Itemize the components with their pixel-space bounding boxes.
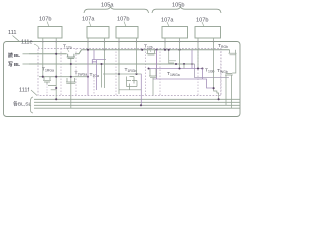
write bit line WBL [29, 63, 195, 65]
transistor T RGb [229, 50, 237, 55]
svg-text:T1WGa: T1WGa [167, 71, 180, 77]
series transistor T12b on RBL [147, 50, 156, 55]
tick 107b (cell 0) [47, 22, 49, 27]
tick T12a [67, 49, 69, 53]
long gate line 105b [153, 78, 202, 80]
purple riser 105b [201, 69, 203, 80]
junction dot node-column cell0 [70, 76, 72, 78]
bus line 2 [34, 101, 240, 103]
transistor T RGa cell0 [43, 77, 51, 84]
bus line 4 [34, 107, 240, 109]
wire: box4 right leg to node [179, 38, 181, 69]
svg-text:T1RGa: T1RGa [42, 67, 54, 73]
svg-text:107a: 107a [82, 17, 95, 23]
dashed cell-region outline 111e/111f [38, 49, 221, 96]
read bit line lead [23, 53, 30, 55]
junction dot on RBL [55, 53, 57, 55]
svg-text:111: 111 [8, 30, 17, 36]
step route to bus1 [214, 88, 219, 99]
read bit line RBL [29, 50, 230, 54]
svg-text:T12b: T12b [144, 44, 153, 50]
junction dot WBL cell0 [70, 63, 72, 65]
write transistor cell0 under WBL [66, 78, 76, 84]
WBL step-down to T WGb [195, 64, 229, 78]
outer array box 111 [4, 42, 241, 117]
svg-text:107a: 107a [161, 18, 174, 24]
word line vertical 105a [156, 50, 158, 79]
pointer 111 [13, 36, 20, 42]
svg-text:107b: 107b [117, 17, 129, 23]
internal dashed column boundaries [93, 74, 95, 96]
junction dot node 105a [118, 73, 120, 75]
wire: box3 right leg to node [136, 38, 138, 74]
write bit line lead [23, 63, 30, 65]
purple vertical 105b [191, 50, 193, 69]
node line 105a [103, 73, 142, 75]
short wire WBL to node [101, 64, 103, 88]
memory element box 107b (cell 0) [38, 27, 62, 39]
gate column wire cell0 [70, 58, 72, 108]
svg-text:各BL,SL: 各BL,SL [13, 101, 31, 108]
wire: box2 left leg [87, 38, 89, 50]
memory element box 107b (pair 105a) [116, 27, 138, 39]
junction dot on dashed line [87, 49, 89, 51]
wire: box5 right leg down [213, 38, 215, 88]
purple routing 105a [92, 50, 106, 90]
crossing mark box2 right leg [104, 49, 106, 51]
wire: box5 left leg to node [197, 38, 199, 69]
node line cell0 [39, 76, 88, 78]
junction dot dashed 105b [164, 49, 166, 51]
junction dot node right end cell0 [87, 76, 89, 78]
gate step wires cell0 [48, 86, 56, 90]
junction dot on column [55, 87, 57, 89]
tick 107b (pair 105b) [202, 22, 204, 27]
junction dot bus1 [55, 98, 57, 100]
junction dots flanking T12b [141, 49, 143, 51]
junction dot WBL 105b [183, 63, 185, 65]
pointer 111e [34, 44, 39, 48]
svg-text:T12a: T12a [63, 44, 72, 50]
junction dots node cell0 [42, 76, 44, 78]
pointer 111f [31, 90, 37, 96]
svg-text:111e: 111e [21, 40, 33, 46]
tick 107a (pair 105a) [89, 22, 91, 27]
lower routing below box4 left leg [169, 50, 176, 64]
gate lead dashes T RGa [46, 84, 48, 95]
junction dot bus1 right [218, 98, 220, 100]
node line 105b [149, 68, 203, 70]
junction dot 105b step [213, 87, 215, 89]
svg-text:107b: 107b [39, 17, 51, 23]
tick 107b (pair 105a) [124, 22, 126, 27]
word line continuation below leg [87, 50, 89, 96]
bus group brace [30, 97, 34, 113]
svg-text:読 BL: 読 BL [8, 52, 20, 59]
svg-text:写 BL: 写 BL [8, 61, 20, 68]
svg-text:T1Ga: T1Ga [90, 72, 100, 78]
transistor under node 105b [149, 69, 157, 78]
svg-text:T1WGa: T1WGa [75, 71, 88, 77]
short wire WBL to node 105b [183, 64, 185, 69]
wire: box1 left leg [42, 38, 44, 77]
svg-text:105a: 105a [101, 3, 114, 9]
drain wires T WGb to buses [226, 78, 232, 109]
gate lead down 105b [152, 78, 154, 96]
dashed boundary right [220, 49, 222, 96]
brace 105b [152, 7, 221, 13]
drain wire T RGb [232, 53, 236, 73]
svg-text:111f: 111f [19, 88, 30, 94]
leg-border crossing marks [42, 41, 44, 43]
junction dots node 105b [178, 67, 180, 69]
svg-text:T1Gb: T1Gb [205, 68, 215, 74]
junction dot bus3 [140, 104, 142, 106]
write cluster steps 105a [119, 74, 141, 94]
svg-text:TRGb: TRGb [218, 43, 228, 49]
wire: box4 left leg [164, 38, 166, 50]
junction dot node left end 105b [148, 68, 150, 70]
junction dot WBL 105a [100, 63, 102, 65]
brace 105a [84, 7, 149, 13]
series transistor T12a on RBL [67, 54, 75, 59]
bus line 3 [34, 104, 240, 106]
gate route drop 105a [140, 74, 142, 105]
junction dot box4 right leg on RBL [178, 49, 180, 51]
transistor T WGb [225, 73, 233, 77]
purple corner to leg dot [202, 79, 213, 88]
junction dot node at box5 leg [197, 67, 199, 69]
svg-text:T1RGb: T1RGb [125, 67, 137, 73]
svg-text:105b: 105b [172, 3, 184, 9]
tick T12b [149, 49, 151, 53]
memory element box 107a (pair 105b) [162, 27, 188, 39]
wire: box1 right leg down to bus1 [55, 38, 57, 99]
tick 107a (pair 105b) [167, 22, 169, 27]
bus line 1 [34, 98, 240, 100]
memory element box 107b (pair 105b) [195, 27, 221, 39]
wire: box2 right leg to node [104, 38, 106, 88]
memory element box 107a (pair 105a) [87, 27, 109, 39]
wire: box3 left leg to node [118, 38, 120, 74]
